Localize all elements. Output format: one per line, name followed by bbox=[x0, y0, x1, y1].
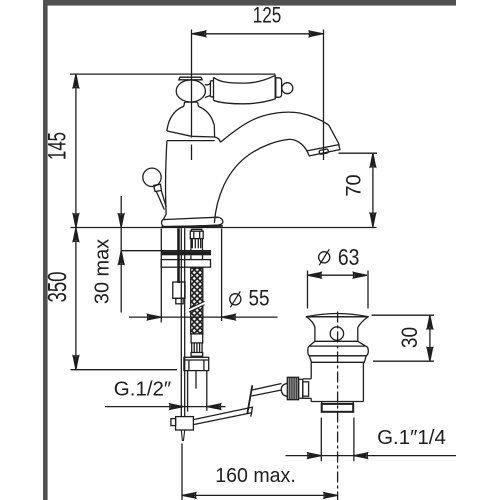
dimension 30 drain line bbox=[429, 315, 431, 361]
dimension 160max left arrow bbox=[182, 493, 195, 498]
svg-text:G.1″1/4: G.1″1/4 bbox=[377, 426, 446, 449]
drain flange dome bbox=[306, 314, 369, 317]
shank break mark bbox=[189, 301, 205, 312]
linkage horizontal arm bbox=[193, 407, 252, 425]
dimension 70 line bbox=[372, 153, 374, 227]
dimension G1"1/4 right arrow bbox=[354, 453, 367, 458]
dimension 30 top arrow bbox=[427, 316, 432, 329]
dimension Ø63 extension lines bbox=[307, 271, 309, 309]
handle lever waist bbox=[205, 83, 211, 97]
dimension Ø63 left arrow bbox=[308, 273, 321, 278]
extension line right of 125 (spout tip) bbox=[323, 30, 325, 161]
neck below ball bbox=[184, 102, 199, 106]
base plate bbox=[162, 217, 223, 227]
dimension G1"1/4 left arrow bbox=[308, 453, 321, 458]
dimension 125 left arrow bbox=[192, 31, 205, 36]
dimension Ø55 line bbox=[129, 316, 278, 318]
dimension Ø63 line bbox=[308, 274, 367, 276]
dimension Ø55 extension lines bbox=[160, 229, 162, 323]
svg-text:30: 30 bbox=[398, 327, 423, 348]
dimension 30 bottom arrow bbox=[427, 348, 432, 361]
spout upper curve bbox=[220, 112, 328, 142]
drain flare bbox=[309, 341, 365, 346]
dimension 125 right arrow bbox=[310, 31, 323, 36]
drain outlet bbox=[322, 404, 354, 412]
svg-text:125: 125 bbox=[253, 4, 282, 29]
hose nipple ribs bbox=[192, 343, 202, 353]
body collar top bbox=[167, 125, 214, 137]
dimension G1"1/4 line bbox=[286, 455, 457, 457]
knurled adjuster nut bbox=[287, 377, 298, 399]
extension line 160 left bbox=[181, 444, 183, 500]
G1/2 hex nut bbox=[184, 357, 209, 370]
dimension G1/2 right arrow bbox=[207, 404, 220, 409]
adjuster collar 2 bbox=[303, 382, 309, 396]
Ø55 diameter symbol bbox=[230, 294, 241, 305]
drain overflow hole bbox=[330, 327, 343, 340]
shank collar bbox=[191, 334, 203, 343]
dimension 30 drain refs bbox=[372, 314, 435, 316]
dimension 70 bottom arrow bbox=[370, 214, 375, 227]
linkage clamp block bbox=[176, 417, 194, 430]
handle lever collar band bbox=[210, 81, 213, 97]
drain ring 1 bbox=[308, 346, 369, 356]
reference line shank end bbox=[71, 369, 178, 371]
body left edge bbox=[163, 141, 167, 220]
handle lever end knob bbox=[282, 83, 293, 94]
dimension Ø63 right arrow bbox=[354, 273, 367, 278]
supply shank ribs above counter bbox=[191, 239, 202, 249]
drain body bbox=[311, 362, 363, 401]
dimension 350 bottom arrow bbox=[73, 356, 78, 369]
linkage diagonal rod bbox=[252, 384, 282, 397]
collar corner to spout root bbox=[215, 137, 221, 142]
drain outlet extension lines bbox=[320, 418, 322, 462]
svg-text:55: 55 bbox=[248, 286, 269, 311]
dimension 125 line bbox=[192, 33, 324, 35]
reference line spout outlet bbox=[339, 152, 378, 154]
threaded shank (crosshatched) bbox=[191, 268, 203, 334]
pull rod stem bbox=[156, 190, 166, 209]
dimension Ø55 right arrow bbox=[222, 315, 235, 320]
spout tip front edge bbox=[329, 125, 340, 145]
body collar bottom bbox=[167, 140, 215, 142]
dimension 30max bottom arrow bbox=[119, 251, 124, 264]
dimension 160max line bbox=[182, 494, 338, 496]
body bell right side bbox=[198, 106, 214, 125]
dimension 30max line bbox=[120, 196, 122, 313]
page frame left bar bbox=[43, 0, 48, 500]
clamp stud bbox=[177, 228, 180, 283]
svg-text:G.1/2″: G.1/2″ bbox=[114, 378, 171, 401]
svg-text:30 max: 30 max bbox=[91, 239, 113, 304]
handle lever end cap bbox=[276, 78, 282, 98]
svg-text:350: 350 bbox=[43, 271, 72, 302]
handle lever paddle bbox=[214, 75, 276, 103]
svg-text:70: 70 bbox=[342, 174, 366, 196]
counter bottom line bbox=[121, 250, 211, 252]
dimension G1/2 left arrow bbox=[170, 404, 183, 409]
page frame top bar bbox=[43, 0, 456, 6]
aerator bbox=[307, 145, 340, 156]
dimension 70 top arrow bbox=[370, 154, 375, 167]
reference line mounting surface bbox=[71, 227, 377, 229]
reference line top of handle bbox=[70, 73, 275, 75]
Ø63 diameter symbol bbox=[319, 252, 330, 263]
faucet centerline bbox=[191, 30, 193, 138]
rod lower tip bbox=[181, 430, 184, 441]
drain centerline bbox=[337, 312, 339, 500]
aerator insert bbox=[319, 149, 329, 155]
base plate bottom heavy edge bbox=[162, 226, 223, 227]
spout lower curve / body right contour bbox=[214, 139, 307, 222]
drain pull rod bbox=[180, 228, 182, 416]
supply shank nut above counter bbox=[190, 229, 203, 238]
svg-text:160 max.: 160 max. bbox=[215, 465, 296, 487]
drain ring 2 bbox=[309, 356, 366, 362]
pull rod knob bbox=[143, 168, 161, 186]
drain neck bbox=[307, 317, 368, 341]
pull rod knob collar bbox=[154, 184, 162, 191]
under-counter clamp block bbox=[173, 282, 185, 298]
dimension G1/2 line bbox=[105, 406, 226, 408]
mounting washer plate bbox=[161, 260, 210, 268]
dimension 145 and 350 line bbox=[75, 74, 77, 370]
thin collar bbox=[191, 353, 203, 357]
svg-text:63: 63 bbox=[338, 246, 359, 271]
dimension Ø55 left arrow bbox=[148, 315, 161, 320]
drain body horn edges bbox=[303, 379, 311, 398]
dimension 350 top arrow bbox=[73, 228, 78, 241]
clamp block tab bbox=[176, 298, 183, 304]
shank sides through counter gap bbox=[191, 248, 203, 259]
handle ball cap bbox=[179, 77, 202, 80]
body bell left side bbox=[167, 106, 184, 131]
dimension 160max right arrow bbox=[324, 493, 337, 498]
svg-text:145: 145 bbox=[43, 132, 71, 160]
linkage cone end bbox=[281, 383, 288, 396]
linkage clamp left tab bbox=[171, 419, 176, 426]
linkage T-bar bbox=[247, 385, 252, 413]
G1/2 pipe tails bbox=[187, 371, 189, 412]
counter cross-section bar bbox=[161, 251, 211, 255]
dimension 145 top arrow bbox=[73, 74, 78, 87]
dimension 145 bottom arrow bbox=[73, 214, 78, 227]
dimension 30max top arrow bbox=[119, 214, 124, 227]
adjuster collar 1 bbox=[299, 379, 303, 398]
handle ball bbox=[176, 80, 205, 102]
